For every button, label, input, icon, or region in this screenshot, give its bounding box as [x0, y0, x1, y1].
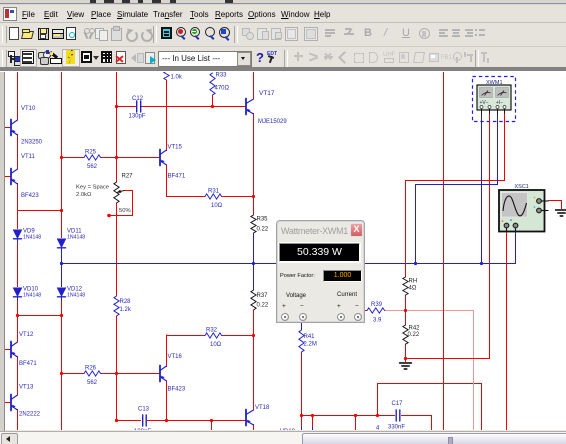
svg-text:0.22: 0.22: [408, 332, 420, 338]
wire: [166, 80, 168, 151]
wire: [101, 373, 160, 375]
wire: [481, 383, 483, 431]
wire bus: [61, 263, 516, 265]
junction: [404, 357, 407, 360]
wire: [431, 415, 433, 431]
wire: [301, 352, 303, 427]
junction: [354, 414, 357, 417]
wire: [17, 183, 19, 229]
wire: [211, 420, 213, 431]
wire R27 wiper loop: [108, 191, 133, 216]
wire: [312, 415, 314, 427]
wire: [222, 335, 253, 337]
svg-text:4Ω: 4Ω: [409, 286, 417, 292]
svg-text:VT15: VT15: [168, 145, 183, 151]
junction: [60, 156, 63, 159]
svg-text:C12: C12: [132, 96, 144, 102]
svg-text:R28: R28: [120, 299, 132, 305]
wire: [253, 71, 255, 99]
svg-text:R42: R42: [409, 326, 421, 332]
wire: [17, 315, 61, 317]
junction: [376, 414, 379, 417]
wire: [405, 180, 505, 182]
junction: [115, 419, 118, 422]
wire: [489, 113, 491, 358]
resistor R35: [251, 215, 256, 233]
junction: [252, 262, 255, 265]
junction: [311, 414, 314, 417]
svg-text:130pF: 130pF: [129, 114, 146, 120]
wire: [101, 157, 160, 159]
wire: [17, 409, 19, 431]
transistor VT15: [160, 150, 167, 166]
transistor VT13: [11, 395, 18, 411]
selection box around XWM1: [473, 77, 516, 122]
wire: [405, 180, 407, 277]
wire: [166, 196, 205, 198]
svg-text:VT18: VT18: [255, 405, 270, 411]
junction: [115, 105, 118, 108]
svg-text:0.22: 0.22: [257, 303, 269, 309]
svg-text:XSC1: XSC1: [515, 184, 529, 190]
resistor R31: [205, 194, 222, 199]
svg-text:VT12: VT12: [19, 332, 34, 338]
resistor R42: [403, 325, 408, 344]
diode VD12: [58, 288, 66, 301]
wire: [141, 106, 246, 108]
diode VD10: [14, 288, 22, 301]
wire: [253, 264, 255, 290]
ground: [556, 210, 566, 216]
wire: [548, 200, 561, 202]
transistor VT11: [11, 169, 18, 185]
svg-text:2.0kΩ: 2.0kΩ: [76, 192, 92, 198]
junction: [165, 419, 168, 422]
svg-text:VT16: VT16: [168, 354, 183, 360]
junction: [60, 314, 63, 317]
svg-text:1N4148: 1N4148: [23, 235, 41, 241]
svg-text:50%: 50%: [119, 208, 131, 214]
wire: [355, 415, 357, 431]
wire: [17, 134, 19, 169]
svg-text:R27: R27: [122, 174, 134, 180]
junction: [480, 262, 483, 265]
wire: [17, 210, 61, 212]
junction: [210, 419, 213, 422]
transistor VT16: [160, 366, 167, 382]
junction: [252, 334, 255, 337]
junction: [60, 209, 63, 212]
wire: [116, 316, 118, 421]
wire: [17, 71, 19, 120]
diode VD11: [58, 239, 66, 252]
toolbar row 2: [0, 47, 566, 67]
svg-text:BF423: BF423: [21, 193, 39, 199]
svg-text:C13: C13: [138, 407, 150, 413]
wattmeter dialog: [276, 220, 365, 323]
svg-text:2N2222: 2N2222: [19, 412, 41, 418]
svg-text:VT10: VT10: [21, 106, 36, 112]
wire: [405, 358, 490, 360]
junction: [60, 372, 63, 375]
wire: [377, 383, 481, 385]
junction: [414, 262, 417, 265]
svg-text:BF471: BF471: [168, 174, 186, 180]
svg-text:3.9: 3.9: [373, 318, 382, 324]
wire: [364, 310, 367, 312]
resistor R34 1.0k top: [164, 71, 169, 80]
junction: [300, 414, 303, 417]
ground: [400, 363, 412, 369]
wire: [116, 203, 118, 296]
wire: [481, 113, 483, 264]
resistor RH: [403, 277, 408, 295]
svg-text:4: 4: [376, 426, 380, 431]
svg-text:2N3250: 2N3250: [21, 140, 43, 146]
wire: [301, 427, 303, 431]
svg-text:10Ω: 10Ω: [211, 203, 223, 209]
svg-text:MJE15029: MJE15029: [258, 119, 287, 125]
svg-text:R25: R25: [85, 150, 97, 156]
wire: [116, 106, 136, 108]
wire: [61, 264, 63, 287]
svg-text:1N4148: 1N4148: [67, 293, 85, 299]
wire: [61, 373, 84, 375]
junction: [211, 105, 214, 108]
junction: [115, 156, 118, 159]
svg-text:VT11: VT11: [21, 154, 36, 160]
wire: [166, 335, 205, 337]
svg-text:470Ω: 470Ω: [215, 86, 230, 92]
resistor R41: [299, 330, 304, 352]
transistor VT17: [246, 99, 254, 115]
wire: [5, 349, 11, 351]
svg-text:R32: R32: [206, 328, 218, 334]
wire: [401, 415, 432, 417]
resistor R37: [251, 290, 256, 310]
junction: [16, 314, 19, 317]
wire bottom bus: [301, 415, 395, 417]
capacitor C12: [137, 101, 141, 112]
wire: [17, 242, 19, 287]
svg-text:BF423: BF423: [168, 387, 186, 393]
wire: [443, 71, 445, 431]
wire: [301, 321, 303, 330]
svg-text:VT13: VT13: [19, 385, 34, 391]
junction: [107, 214, 111, 218]
potentiometer R27: [114, 182, 124, 203]
svg-text:+V−: +V−: [480, 100, 489, 106]
wire: [497, 113, 499, 185]
wire: [212, 95, 214, 107]
oscilloscope XSC1: [499, 190, 549, 232]
svg-text:1.2k: 1.2k: [120, 307, 132, 313]
svg-text:1.0k: 1.0k: [171, 75, 183, 81]
svg-text:1N4148: 1N4148: [23, 293, 41, 299]
wire: [415, 184, 498, 186]
svg-text:C17: C17: [392, 401, 404, 407]
resistor R39: [367, 308, 385, 313]
transistor VT10: [11, 120, 18, 136]
menu bar: [0, 5, 566, 23]
svg-text:BF471: BF471: [19, 361, 37, 367]
wire: [515, 231, 517, 264]
transistor VT12: [11, 342, 18, 358]
svg-text:2.2M: 2.2M: [304, 342, 317, 348]
wire: [61, 300, 63, 431]
resistor R26: [84, 371, 101, 376]
transistor VT18: [246, 410, 254, 426]
junction: [60, 262, 63, 265]
wire: [405, 344, 407, 362]
svg-text:330nF: 330nF: [388, 425, 405, 431]
wire: [253, 424, 255, 431]
svg-text:R31: R31: [208, 189, 220, 195]
wire: [61, 71, 63, 238]
wire: [61, 157, 84, 159]
svg-text:562: 562: [87, 380, 98, 386]
horizontal scrollbar: [0, 431, 566, 444]
wire: [147, 420, 246, 422]
wire: [116, 420, 141, 422]
canvas: [0, 67, 566, 71]
capacitor C13: [143, 415, 147, 426]
svg-text:VT17: VT17: [259, 90, 275, 97]
svg-text:R41: R41: [304, 334, 316, 340]
wire: [5, 127, 11, 129]
wire: [473, 310, 475, 431]
junction: [404, 309, 407, 312]
wattmeter instrument XWM1: [477, 85, 511, 114]
resistor R25: [84, 155, 101, 160]
wire: [385, 310, 473, 312]
svg-text:RH: RH: [409, 279, 418, 285]
wire: [5, 402, 11, 404]
junction: [115, 372, 118, 375]
diode VD9: [14, 230, 22, 243]
wire: [377, 383, 379, 415]
wire: [116, 71, 118, 182]
wire: [253, 310, 255, 410]
resistor R33: [210, 73, 215, 95]
svg-text:10Ω: 10Ω: [210, 342, 222, 348]
svg-text:1N4148: 1N4148: [67, 235, 85, 241]
wire: [253, 113, 255, 215]
wire: [506, 231, 508, 431]
toolbar row 1: [0, 23, 566, 47]
wire: [5, 176, 11, 178]
junction: [252, 195, 255, 198]
wire: [405, 295, 407, 325]
wire: [61, 251, 63, 263]
svg-text:VD19: VD19: [280, 429, 296, 430]
svg-text:Key = Space: Key = Space: [76, 185, 109, 191]
svg-text:XWM1: XWM1: [486, 80, 503, 86]
svg-text:0.22: 0.22: [257, 227, 269, 233]
capacitor C17: [396, 410, 400, 421]
wire: [415, 184, 417, 264]
svg-text:R35: R35: [257, 217, 269, 223]
resistor R28: [114, 296, 119, 316]
svg-text:R39: R39: [371, 302, 383, 308]
svg-text:130pF: 130pF: [134, 429, 151, 430]
svg-text:R33: R33: [216, 73, 228, 79]
wire: [166, 335, 168, 368]
wire: [561, 200, 563, 209]
wire: [166, 165, 168, 197]
wire: [253, 233, 255, 264]
svg-text:R26: R26: [85, 366, 97, 372]
wire: [17, 300, 19, 342]
wire: [222, 196, 253, 198]
wire: [166, 381, 168, 421]
resistor R32: [205, 333, 222, 338]
wire: [312, 427, 314, 431]
svg-text:+I−: +I−: [496, 100, 503, 106]
svg-text:562: 562: [87, 164, 98, 170]
title bar sliver: [0, 0, 566, 5]
svg-text:R37: R37: [257, 293, 269, 299]
wire: [504, 113, 506, 181]
wire: [17, 356, 19, 395]
